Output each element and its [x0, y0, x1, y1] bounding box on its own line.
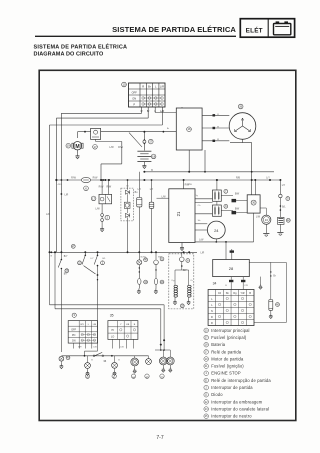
svg-text:P: P	[133, 102, 135, 106]
svg-text:R: R	[211, 316, 213, 319]
svg-text:B/R: B/R	[158, 256, 162, 258]
svg-text:10: 10	[122, 83, 126, 87]
svg-text:L/Y: L/Y	[90, 258, 94, 260]
svg-text:Br: Br	[148, 84, 151, 88]
svg-text:OFF: OFF	[71, 328, 76, 331]
svg-text:N: N	[211, 310, 213, 313]
svg-text:19: 19	[67, 144, 71, 148]
svg-text:Interruptor de neutro: Interruptor de neutro	[211, 414, 252, 419]
svg-text:B/Y: B/Y	[78, 346, 82, 348]
svg-text:OFF: OFF	[132, 90, 138, 94]
svg-text:20: 20	[161, 375, 164, 379]
svg-text:Or: Or	[190, 279, 193, 282]
svg-text:17: 17	[93, 145, 97, 149]
svg-text:17: 17	[92, 196, 96, 200]
svg-text:B/Y: B/Y	[64, 274, 68, 276]
svg-text:24: 24	[214, 228, 219, 233]
svg-text:34: 34	[213, 282, 217, 286]
svg-text:42: 42	[86, 375, 89, 379]
svg-text:18: 18	[152, 154, 156, 158]
svg-text:Interruptor do cavalete latera: Interruptor do cavalete lateral	[211, 406, 269, 411]
svg-text:49 B: 49 B	[58, 184, 63, 186]
svg-text:ENGINE STOP: ENGINE STOP	[211, 371, 241, 376]
svg-text:L/R: L/R	[65, 193, 69, 196]
svg-text:13: 13	[265, 218, 269, 222]
svg-text:PO: PO	[72, 334, 76, 337]
svg-text:L/B: L/B	[120, 346, 124, 348]
svg-text:Relé de interrupção de partida: Relé de interrupção de partida	[211, 378, 271, 383]
svg-text:30: 30	[252, 201, 255, 205]
svg-text:L/R: L/R	[46, 213, 50, 216]
svg-text:R: R	[211, 322, 213, 325]
svg-text:41: 41	[113, 375, 116, 379]
svg-text:R/W: R/W	[118, 146, 123, 149]
svg-text:L/Y: L/Y	[282, 185, 286, 187]
svg-text:ON: ON	[72, 340, 76, 343]
svg-text:Motor de partida: Motor de partida	[211, 356, 244, 361]
svg-text:7-7: 7-7	[156, 435, 163, 441]
svg-text:SISTEMA DE PARTIDA ELÉTRICA: SISTEMA DE PARTIDA ELÉTRICA	[112, 25, 236, 34]
svg-text:Y/R: Y/R	[244, 285, 248, 287]
svg-text:HI: HI	[111, 329, 114, 332]
svg-text:R/W: R/W	[93, 177, 98, 180]
svg-text:DIAGRAMA DO CIRCUITO: DIAGRAMA DO CIRCUITO	[34, 51, 104, 57]
svg-text:Bateria: Bateria	[211, 342, 226, 347]
svg-text:26: 26	[239, 105, 243, 109]
svg-text:Br: Br	[126, 184, 128, 187]
svg-text:R: R	[142, 84, 144, 88]
svg-text:Br: Br	[167, 127, 169, 130]
svg-text:B/Y: B/Y	[80, 324, 84, 326]
svg-text:R/W: R/W	[99, 186, 104, 189]
svg-text:21: 21	[176, 211, 181, 216]
svg-text:B/Y: B/Y	[183, 270, 187, 272]
svg-text:45: 45	[146, 375, 149, 379]
svg-text:L/Y: L/Y	[266, 177, 270, 180]
svg-text:L/Y: L/Y	[138, 189, 142, 191]
svg-text:Br: Br	[273, 274, 276, 277]
svg-text:ELÉT: ELÉT	[246, 26, 263, 35]
svg-text:M: M	[75, 144, 79, 150]
svg-text:LO: LO	[111, 336, 114, 339]
svg-text:28: 28	[229, 266, 234, 271]
svg-text:B/Y: B/Y	[64, 256, 68, 258]
svg-text:L/W: L/W	[109, 146, 114, 149]
svg-text:L/R: L/R	[201, 251, 205, 254]
svg-text:Relé de partida: Relé de partida	[211, 349, 242, 354]
svg-text:Fusível (ignição): Fusível (ignição)	[211, 364, 244, 369]
svg-text:27: 27	[149, 140, 153, 144]
svg-text:R/B: R/B	[236, 177, 240, 180]
svg-text:Interruptor principal: Interruptor principal	[211, 328, 249, 333]
svg-text:44: 44	[132, 375, 135, 379]
svg-text:L/R: L/R	[160, 84, 164, 88]
svg-text:R/W: R/W	[106, 186, 111, 189]
svg-text:Fusível (principal): Fusível (principal)	[211, 335, 247, 340]
svg-text:16: 16	[187, 127, 191, 131]
svg-text:Y/R: Y/R	[241, 292, 245, 295]
svg-text:L/W: L/W	[199, 238, 204, 241]
svg-text:L/B: L/B	[93, 324, 97, 326]
svg-text:L/B: L/B	[93, 346, 97, 348]
svg-text:L/W: L/W	[95, 208, 100, 211]
svg-text:R/W: R/W	[71, 177, 76, 180]
svg-text:Interruptor da embreagem: Interruptor da embreagem	[211, 399, 263, 404]
svg-text:35: 35	[110, 314, 114, 318]
svg-text:Interruptor de partida: Interruptor de partida	[211, 385, 253, 390]
svg-text:ON: ON	[132, 96, 136, 100]
svg-text:L/Y: L/Y	[150, 189, 154, 191]
svg-text:L/B: L/B	[126, 324, 130, 326]
svg-text:SISTEMA DE PARTIDA ELÉTRICA: SISTEMA DE PARTIDA ELÉTRICA	[34, 42, 128, 50]
svg-text:Diodo: Diodo	[211, 392, 223, 397]
